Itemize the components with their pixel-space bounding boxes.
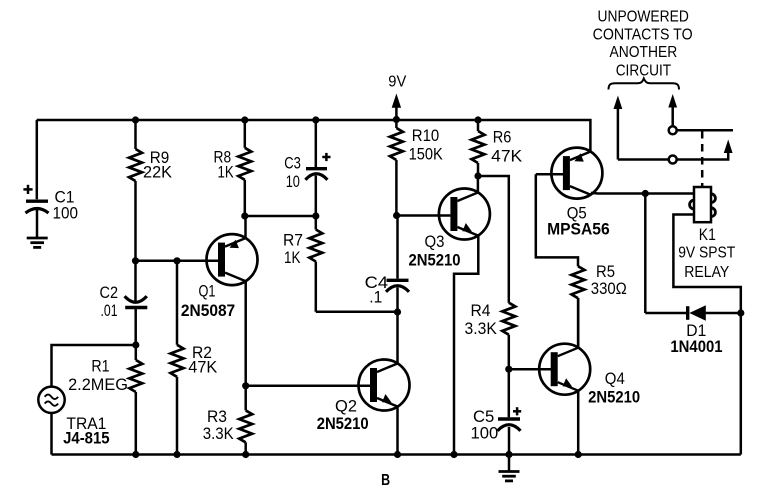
svg-text:Q1: Q1 (199, 282, 216, 301)
svg-text:CIRCUIT: CIRCUIT (616, 63, 672, 80)
wire: upper contact to right (677, 129, 733, 132)
node: C4/R7/Q2 collector (394, 308, 401, 315)
resistor R7 (309, 216, 322, 312)
node: Q1 base/C2 (132, 257, 139, 264)
svg-text:J4-815: J4-815 (63, 429, 110, 448)
node: Q1 collector/Q2 base (242, 382, 249, 389)
capacitor C2 (125, 261, 148, 345)
resistor R9 (129, 120, 142, 261)
node: rail/Q4 emitter (575, 451, 582, 458)
arrow above upper contact (668, 94, 677, 126)
wire: Q2 emitter down to ground rail (396, 407, 399, 455)
resistor R6 (472, 120, 485, 176)
node: R4/C5/Q4 base (505, 366, 512, 373)
node: rail/R3 (242, 451, 249, 458)
resistor R4 (502, 303, 515, 370)
resistor R3 (239, 410, 252, 454)
wire: Q2 base from Q1 collector line (246, 385, 370, 388)
signal source TRA1 (38, 387, 64, 413)
svg-text:R6: R6 (493, 127, 512, 146)
plus sign of C5 (513, 407, 521, 415)
wire: ground stub (508, 455, 511, 472)
wire: Q3 emitter down with jog to ground rail (454, 236, 478, 455)
wire: Q1 collector down through R3 region (244, 282, 247, 411)
svg-text:9V: 9V (388, 74, 406, 91)
wire: R6 node to R4 branch (478, 176, 509, 303)
wire: Q5 collector node down to D1 (644, 194, 647, 314)
svg-text:330Ω: 330Ω (591, 279, 627, 298)
node: rail/R6 (474, 116, 481, 123)
ground symbol (499, 472, 520, 481)
diode D1 (645, 305, 741, 320)
wire: C2 bottom node to TRA1 (52, 345, 136, 387)
svg-text:B: B (381, 472, 390, 489)
relay contact (upper) (669, 126, 677, 134)
node: rail/C5/ground (505, 451, 512, 458)
dashed actuation line from contacts to relay (701, 131, 704, 186)
svg-text:22K: 22K (143, 163, 173, 182)
wire: Q1 emitter up to node (244, 216, 247, 238)
wire: Q4 collector up to R5 (577, 298, 580, 348)
svg-text:2N5210: 2N5210 (588, 388, 640, 407)
transistor Q4 (NPN 2N5210) (539, 344, 590, 395)
svg-text:C2: C2 (100, 283, 119, 302)
capacitor C5 (498, 369, 521, 454)
svg-text:2N5210: 2N5210 (317, 414, 369, 433)
resistor R2 (171, 261, 184, 455)
svg-text:UNPOWERED: UNPOWERED (598, 9, 689, 26)
svg-text:1K: 1K (218, 163, 235, 182)
svg-text:RELAY: RELAY (684, 264, 729, 281)
node: C2/R1/TRA1 junction (132, 341, 139, 348)
resistor R1 (129, 345, 142, 455)
svg-text:47K: 47K (491, 146, 523, 165)
wire: Q5 base from R5 branch (536, 173, 564, 176)
transistor Q5 (PNP MPSA56) (551, 148, 602, 199)
svg-text:100: 100 (53, 204, 79, 223)
svg-text:9V SPST: 9V SPST (678, 245, 735, 262)
node: rail/R2 (173, 451, 180, 458)
node: rail/9V/R10 (393, 116, 400, 123)
node: R10/Q3 base/C4 (393, 212, 400, 219)
svg-text:MPSA56: MPSA56 (547, 220, 610, 239)
capacitor C3 (305, 120, 327, 216)
wire: TRA1 to bottom rail (50, 413, 53, 455)
capacitor C4 (386, 216, 409, 313)
svg-text:100: 100 (471, 424, 499, 443)
wire: bottom ground rail (52, 453, 741, 456)
wire: Q5 collector node to relay coil (645, 192, 694, 195)
svg-text:.01: .01 (101, 301, 118, 320)
relay coil K1 (690, 187, 716, 222)
node: D1/relay return (737, 309, 744, 316)
svg-text:47K: 47K (188, 358, 218, 377)
node: R6/Q3 collector/R4 (474, 172, 481, 179)
svg-text:3.3K: 3.3K (203, 424, 235, 443)
node: rail/R8 (241, 116, 248, 123)
svg-text:C3: C3 (284, 154, 301, 173)
svg-text:Q4: Q4 (605, 369, 625, 388)
wire: +9V top rail with drop to Q5 emitter (37, 120, 591, 151)
svg-text:R1: R1 (91, 357, 109, 376)
arrow at far left of contacts (614, 96, 623, 160)
power arrow 9V (392, 94, 401, 120)
node: rail/Q3 emitter (450, 451, 457, 458)
resistor R10 (390, 120, 403, 216)
wire: left arrow to lower contact (618, 158, 669, 161)
svg-text:K1: K1 (699, 225, 716, 244)
svg-text:Q2: Q2 (335, 397, 357, 416)
svg-text:2N5210: 2N5210 (409, 251, 461, 270)
svg-text:3.3K: 3.3K (465, 319, 498, 338)
svg-text:R5: R5 (596, 262, 615, 281)
svg-text:10: 10 (286, 172, 300, 191)
transistor Q1 (PNP 2N5087) (207, 234, 258, 285)
wire: Q4 base from R4/C5 node (509, 368, 552, 371)
wire: C1 to ground (36, 208, 39, 238)
svg-text:R7: R7 (283, 231, 303, 250)
wire: Q3 collector up to R6 node (477, 176, 480, 193)
wire: Q4 emitter down to ground rail (577, 391, 580, 455)
node: C3/R7 (312, 212, 319, 219)
svg-text:2.2MEG: 2.2MEG (68, 375, 128, 394)
svg-text:2N5087: 2N5087 (181, 301, 235, 320)
node: Q1 base/R2 (173, 257, 180, 264)
node: rail/C3 (312, 116, 319, 123)
wire: Q5 collector to relay node (591, 192, 645, 195)
capacitor C1 (26, 201, 49, 213)
node: Q5 collector/relay/D1 (642, 190, 649, 197)
svg-text:1K: 1K (284, 248, 301, 267)
node: rail/R1 (132, 451, 139, 458)
wire: D1 node down to bottom rail (740, 313, 743, 455)
wire: left branch from rail to C1 (36, 120, 39, 199)
svg-text:ANOTHER: ANOTHER (610, 44, 678, 61)
wire: R8/Q1-emitter node to C3 node (245, 215, 316, 218)
svg-text:R10: R10 (412, 126, 439, 145)
plus sign of C3 (322, 153, 330, 161)
resistor R5 (536, 174, 585, 347)
svg-text:1N4001: 1N4001 (670, 337, 722, 356)
node: R8/Q1 emitter/C3 wire (241, 212, 248, 219)
resistor R8 (238, 120, 251, 216)
node: rail/R9 (132, 116, 139, 123)
wire: relay lower terminal loop to D1 cathode node (673, 215, 740, 314)
wire: Q3 base from R10 node (396, 214, 450, 217)
transistor Q3 (NPN 2N5210) (439, 189, 490, 240)
brace over contacts (609, 79, 680, 90)
ground below C1 (27, 238, 48, 247)
svg-text:R4: R4 (471, 301, 491, 320)
plus sign of C1 (23, 185, 32, 194)
wire: lower contact to right with up arrow (677, 140, 733, 160)
wire: Q1 base from C2 node (136, 260, 220, 263)
node: rail/Q2 emitter (394, 451, 401, 458)
wire: R7 bottom to C4/Q2-collector node (316, 311, 398, 314)
svg-text:Q3: Q3 (425, 232, 445, 251)
svg-text:CONTACTS TO: CONTACTS TO (593, 26, 693, 43)
wire: Q2 collector up to C4 node (396, 312, 399, 363)
transistor Q2 (NPN 2N5210) (359, 360, 410, 411)
svg-text:150K: 150K (409, 145, 444, 164)
relay contact (lower) (669, 156, 677, 164)
svg-text:.1: .1 (369, 288, 382, 307)
